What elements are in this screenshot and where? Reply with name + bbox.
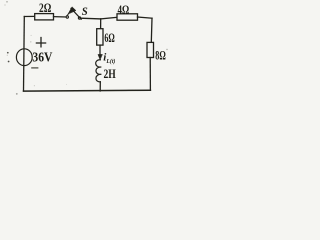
wire node A down to 6-ohm [100,19,102,29]
wire switch to node A [81,17,101,20]
wire node A to 4-ohm resistor [101,17,117,19]
wire inductor to bottom wire [99,82,101,91]
switch S blade [71,8,81,19]
svg-text:S: S [82,6,88,18]
voltage source V1 circle [16,49,32,66]
svg-text:2Ω: 2Ω [39,0,51,15]
wire 4-ohm to top-right corner [138,17,153,18]
wire right side lower (8-ohm to bottom-right corner) [149,58,151,91]
svg-text:6Ω: 6Ω [104,30,114,45]
resistor R 8ohm body [147,42,154,57]
wire right side upper (corner down to 8-ohm) [150,18,153,42]
svg-text:36V: 36V [32,50,52,65]
switch S left contact [66,16,68,18]
scan specks near bottom wire [34,85,35,86]
switch S right contact [78,17,80,19]
wire 2-ohm to switch left contact [54,16,67,18]
scan speck bottom-left [16,93,18,95]
svg-text:4Ω: 4Ω [118,3,130,17]
plus polarity mark [36,38,45,47]
wire top-left horizontal (corner to 2-ohm resistor) [24,15,34,17]
wire bottom horizontal [24,89,151,92]
switch S arrowhead [68,7,76,14]
resistor R 2ohm body [35,14,54,20]
scan specks left of source [7,52,9,54]
resistor R 6ohm body [97,29,103,45]
svg-text:8Ω: 8Ω [155,49,166,63]
scan speck near plus [30,41,31,42]
switch S blade tail toward left contact [67,14,69,16]
scan speck right of 8-ohm label [166,49,167,50]
wire left side (top-left corner down through source to bottom-left corner) [23,17,26,92]
svg-text:2H: 2H [104,67,116,81]
minus polarity mark [32,67,38,69]
scan speck top-left [6,1,8,3]
inductor L 2H coil [96,60,102,82]
svg-text:iL(t): iL(t) [103,52,115,65]
wire 6-ohm down to current arrow [99,45,101,55]
resistor R 4ohm body [117,14,138,20]
current arrow iL pointing down [98,54,102,59]
